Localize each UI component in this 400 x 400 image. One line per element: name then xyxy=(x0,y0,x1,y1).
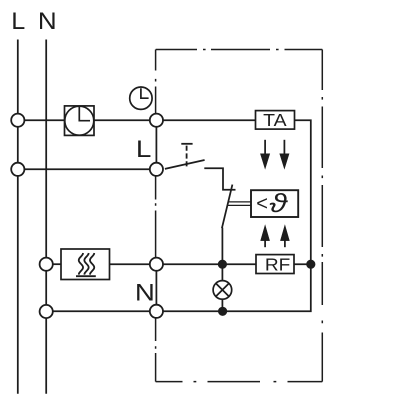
arrow down 1 xyxy=(261,140,270,169)
wire L bus vertical xyxy=(17,40,19,394)
lamp H1 cross xyxy=(216,283,229,296)
arrow up 1 xyxy=(261,225,270,247)
enclosure frame top edge (dash-dot) xyxy=(156,49,323,51)
switch S1 fixed contact and step xyxy=(204,168,235,190)
heater E1 wavy element 3 xyxy=(90,253,94,275)
enclosure frame left edge (dash-dot) xyxy=(155,50,157,382)
wire row1: L bus to time switch xyxy=(18,119,65,121)
wire row2: L bus to terminal xyxy=(18,168,157,170)
svg-text:TA: TA xyxy=(263,110,287,130)
lamp H1 feed wire xyxy=(221,264,223,281)
time switch box xyxy=(65,106,95,135)
terminal device row4 (N) xyxy=(150,305,163,318)
wire switch output down to junction A xyxy=(221,228,223,265)
wire terminal link row3-row4 xyxy=(155,264,157,311)
RF box xyxy=(256,255,294,274)
wire terminal link row1-row2 xyxy=(155,120,157,169)
lamp H1 return wire xyxy=(221,299,223,311)
wire TA box to right drop xyxy=(295,120,311,264)
wire row1 terminal to TA box xyxy=(156,119,255,121)
switch S1 manual actuator T bar xyxy=(181,143,192,145)
arrow up 2 xyxy=(281,225,290,247)
wire row4 terminal to right riser xyxy=(156,264,310,311)
wire RF box to junction C xyxy=(294,263,311,265)
heater E1 base line xyxy=(76,275,96,277)
wire row3 terminal to RF box xyxy=(156,263,256,265)
svg-text:N: N xyxy=(38,8,57,35)
terminal device row3 xyxy=(150,258,163,271)
switch S1 blade xyxy=(165,160,205,169)
wire heater to terminal row3 xyxy=(110,263,157,265)
thermostat U1 box xyxy=(251,190,298,217)
terminal device row1 xyxy=(150,114,163,127)
svg-text:L: L xyxy=(136,136,152,163)
heater E1 box xyxy=(61,249,110,280)
switch S1 manual actuator dashed link xyxy=(186,146,188,167)
wire N bus vertical xyxy=(45,40,47,394)
enclosure frame bottom edge (dash-dot) xyxy=(156,381,323,383)
heater E1 wavy element 1 xyxy=(79,253,83,275)
time switch clock face xyxy=(65,106,94,135)
svg-text:RF: RF xyxy=(265,254,290,274)
time switch clock hands xyxy=(79,107,90,121)
clock symbol hands xyxy=(141,88,149,98)
svg-text:N: N xyxy=(135,279,155,306)
svg-text:ϑ: ϑ xyxy=(269,189,288,218)
switch S1 actuating diagonal xyxy=(222,185,233,229)
clock symbol above wire xyxy=(130,87,152,109)
terminal L bus row1 xyxy=(11,114,24,127)
svg-text:L: L xyxy=(11,8,25,35)
junction A (switch/RF/lamp) xyxy=(218,260,227,269)
arrow down 2 xyxy=(280,140,289,169)
terminal N bus row3 xyxy=(40,258,53,271)
junction C (RF to riser) xyxy=(306,260,315,269)
lamp H1 circle xyxy=(213,281,232,300)
terminal L bus row2 xyxy=(11,163,24,176)
terminal device row2 (L) xyxy=(150,163,163,176)
junction B (lamp to N row) xyxy=(218,307,227,316)
thermostat mechanical link (double line) xyxy=(228,202,251,206)
svg-text:<: < xyxy=(256,193,268,215)
terminal N bus row4 xyxy=(40,305,53,318)
wire row1: time switch to terminal xyxy=(94,119,156,121)
wire row4: N bus to terminal xyxy=(46,310,156,312)
wire row3: N bus to heater xyxy=(46,263,61,265)
heater E1 wavy element 2 xyxy=(84,253,88,275)
TA box xyxy=(256,111,295,130)
enclosure frame right edge (dash-dot) xyxy=(321,50,323,382)
